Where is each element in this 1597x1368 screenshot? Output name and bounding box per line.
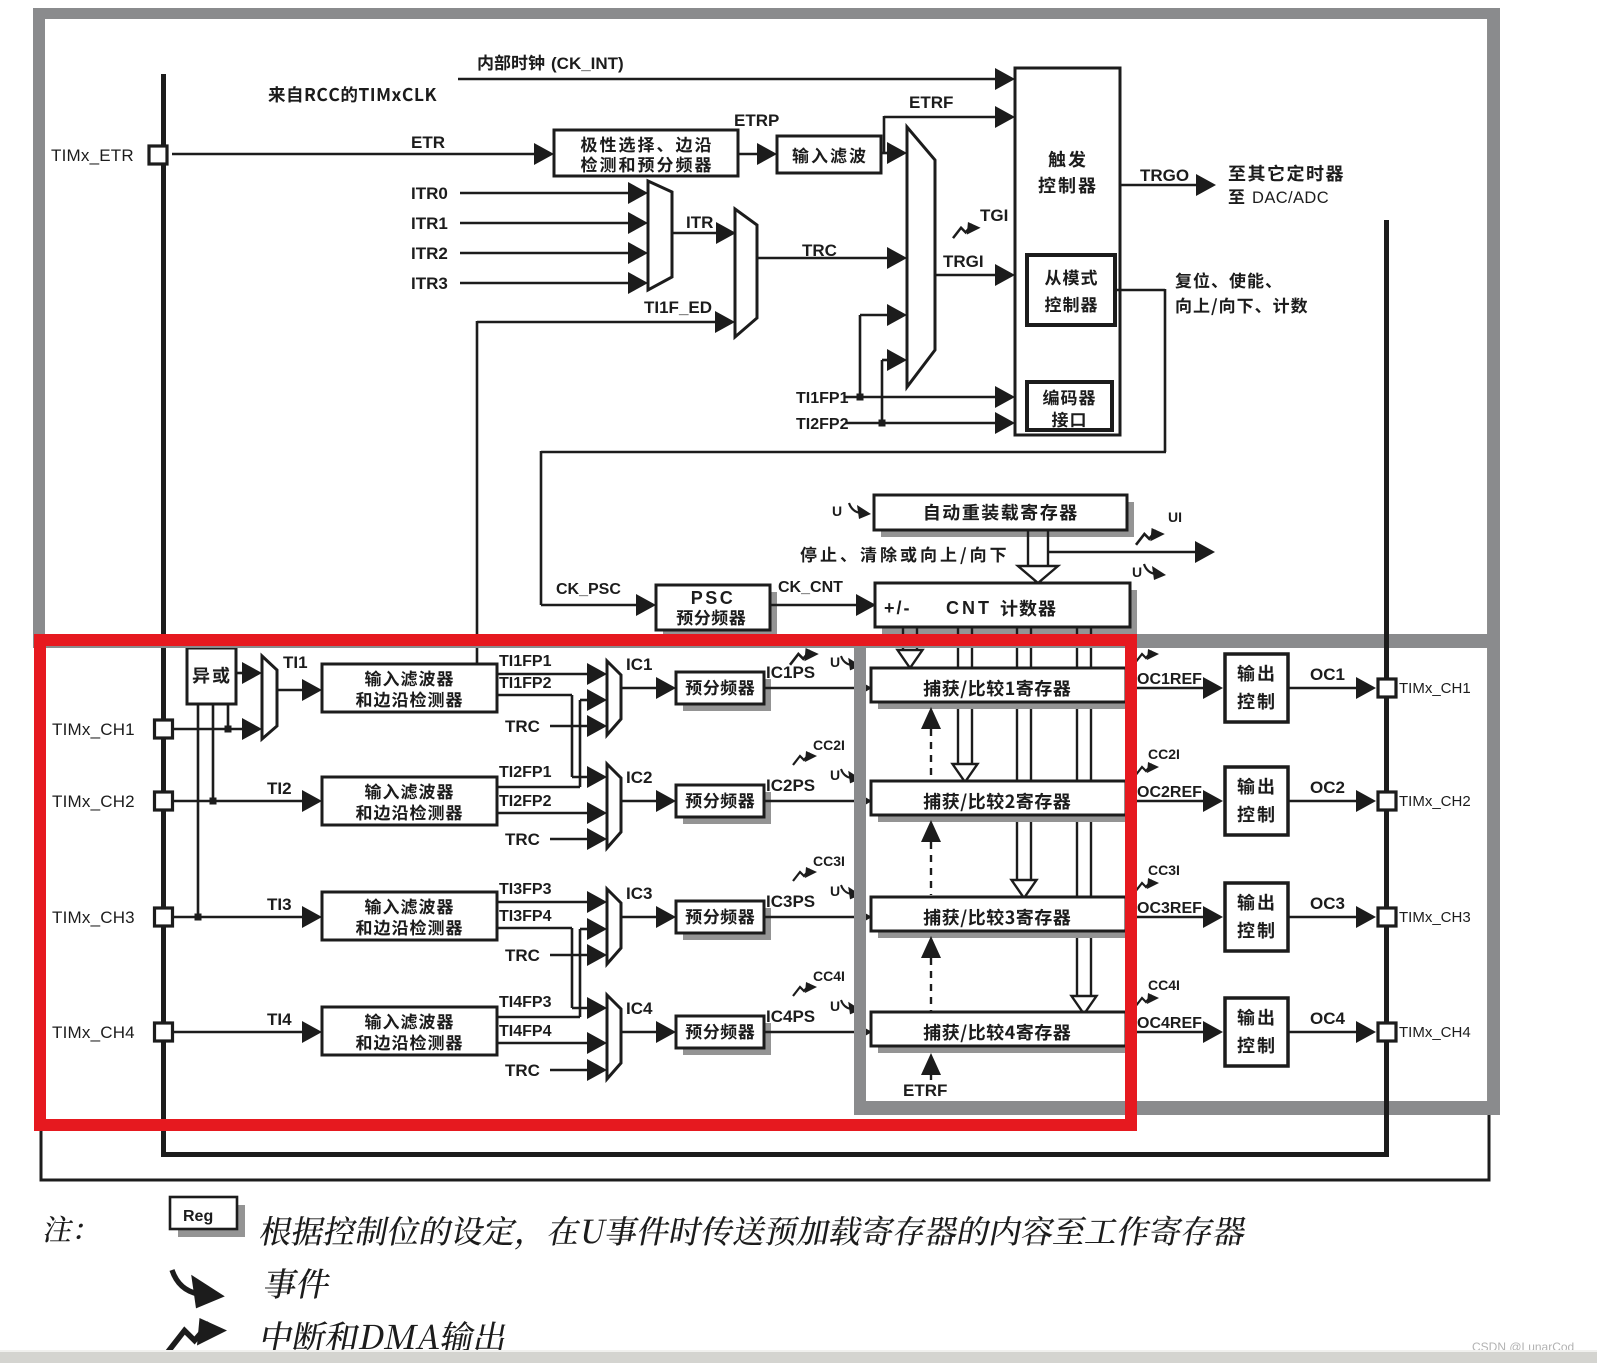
svg-text:ITR1: ITR1 [411, 214, 448, 233]
thick inner frame bottom line [161, 1152, 1389, 1157]
junction XOR-CH3 [195, 914, 202, 921]
block prescaler channel 4 预分频器 [683, 1023, 771, 1055]
svg-text:TIMx_CH2: TIMx_CH2 [1399, 793, 1471, 810]
svg-text:CC3I: CC3I [1148, 862, 1180, 878]
svg-text:U: U [830, 998, 840, 1014]
wire TI3FP4 down to IC4 mux [497, 927, 572, 930]
wire TI1FP2 down to IC2 mux [497, 694, 572, 697]
bottom window strip [0, 1350, 1597, 1352]
svg-text:ETRF: ETRF [909, 93, 953, 112]
svg-text:ITR2: ITR2 [411, 244, 448, 263]
svg-text:TIMx_CH1: TIMx_CH1 [52, 720, 135, 739]
mux IC3 input selector [607, 889, 621, 964]
svg-text:CNT: CNT [946, 598, 992, 618]
svg-text:CK_CNT: CK_CNT [778, 579, 843, 596]
wire TRGI [935, 274, 1000, 277]
wire TIMx_CH1 to mux [172, 728, 248, 731]
label 至其它定时器 / 至 DAC/ADC [1229, 165, 1343, 182]
thick inner frame right vertical line [1384, 220, 1389, 1157]
red highlight rectangle bottom bar [34, 1119, 1137, 1131]
svg-text:IC4PS: IC4PS [766, 1007, 815, 1026]
svg-text:U: U [830, 654, 840, 670]
svg-text:OC4: OC4 [1310, 1009, 1346, 1028]
legend label 事件 [263, 1268, 333, 1298]
block capture/compare register 4 捕获/比较4寄存器 [878, 1019, 1133, 1053]
block input filter & edge detector channel 4 输入滤波器和边沿检测器 [322, 1007, 497, 1055]
svg-text:CC4I: CC4I [1148, 977, 1180, 993]
wire TI1F_ED [477, 321, 718, 324]
label 复位、使能、向上/向下、计数 [1175, 272, 1271, 288]
svg-text:TI1FP1: TI1FP1 [499, 653, 552, 670]
block input filter & edge detector channel 1 输入滤波器和边沿检测器 [322, 664, 497, 712]
wire XOR leg to CH1 [227, 704, 230, 729]
svg-text:CC3I: CC3I [813, 853, 845, 869]
svg-text:TI1FP1: TI1FP1 [796, 390, 849, 407]
wire U event output right [1048, 551, 1201, 554]
svg-text:TRGO: TRGO [1140, 166, 1189, 185]
wire IC1 [621, 687, 658, 690]
block slave mode controller 从模式控制器 [1027, 255, 1115, 325]
block prescaler channel 2 预分频器 [683, 792, 771, 824]
wire ETRP [738, 153, 760, 156]
mux ITR selector [648, 181, 672, 290]
svg-text:ETRF: ETRF [903, 1081, 947, 1100]
wire slave mode control to prescaler (CK_PSC path) [1115, 289, 1165, 292]
block prescaler channel 3 预分频器 [683, 908, 771, 940]
svg-text:UI: UI [1168, 509, 1182, 525]
wire TRC row 4 [550, 1069, 590, 1072]
legend note text 根据控制位的设定... [258, 1216, 1248, 1250]
mux trigger input selector [907, 127, 935, 387]
wire OC3REF [1126, 916, 1204, 919]
wire TRGO [1120, 184, 1198, 187]
svg-text:PSC: PSC [691, 588, 736, 608]
wire OC4REF [1126, 1031, 1204, 1034]
block input filter & edge detector channel 2 输入滤波器和边沿检测器 [322, 777, 497, 825]
wire IC4 [621, 1031, 658, 1034]
mux IC2 input selector [607, 764, 621, 848]
interrupt zigzag CC3I left [793, 867, 817, 881]
hollow arrow CNT to capture/compare 2 [957, 627, 959, 766]
pad TIMx_CH1 [155, 720, 173, 738]
block capture/compare register 3 捕获/比较3寄存器 [878, 904, 1133, 938]
wire XOR leg to CH2 [212, 704, 215, 801]
svg-text:IC1: IC1 [626, 655, 652, 674]
svg-text:U: U [832, 503, 842, 519]
legend label 注： [43, 1216, 84, 1243]
wire TRC row 1 [550, 725, 590, 728]
legend event arrow [172, 1270, 225, 1308]
wire ITR2 [460, 252, 631, 255]
svg-text:U: U [830, 767, 840, 783]
gray frame left bar [33, 8, 45, 648]
wire IC1PS [764, 687, 860, 690]
wire XOR output to TI1 mux [236, 672, 248, 675]
gray frame right bar [1488, 8, 1500, 1115]
dashed capture arrow CC2 to CC1 [921, 707, 941, 729]
interrupt zigzag CC3I right [1135, 878, 1159, 892]
wire ETRF into trigger mux [881, 152, 890, 155]
junction TI2FP2 [879, 420, 886, 427]
svg-text:TI1FP2: TI1FP2 [499, 675, 552, 692]
wire IC3 [621, 916, 658, 919]
svg-text:ETRP: ETRP [734, 111, 779, 130]
block XOR 异或 [187, 648, 236, 704]
wire XOR leg to CH3 [197, 704, 200, 917]
block counter CNT 计数器 [882, 590, 1137, 634]
mux IC1 input selector [607, 661, 621, 735]
wire TRC [757, 257, 890, 260]
pad TIMx_CH4 [155, 1023, 173, 1041]
block capture/compare register 1 捕获/比较1寄存器 [878, 675, 1133, 709]
wire IC2 [621, 800, 658, 803]
interrupt zigzag CC4I right [1135, 993, 1159, 1007]
svg-text:TI1: TI1 [283, 653, 308, 672]
wire TI3FP3 [497, 901, 590, 904]
gray frame middle horizontal bar [33, 634, 1500, 648]
svg-text:CC2I: CC2I [1148, 746, 1180, 762]
svg-text:TI3FP3: TI3FP3 [499, 881, 552, 898]
wire OC4 [1288, 1031, 1358, 1034]
wire TI4FP4 [497, 1042, 590, 1045]
legend interrupt/DMA zigzag arrow [167, 1318, 227, 1353]
wire TRC row 2 [550, 838, 590, 841]
wire TI1 [277, 689, 304, 692]
wire TI1FP1 [497, 673, 590, 676]
wire TRC row 3 [550, 954, 590, 957]
interrupt zigzag CC4I left [793, 982, 817, 996]
block trigger controller 触发控制器 [1015, 68, 1120, 435]
svg-text:TRC: TRC [505, 717, 540, 736]
block capture/compare register 2 捕获/比较2寄存器 [878, 788, 1133, 822]
svg-text:OC1REF: OC1REF [1137, 671, 1202, 688]
wire IC4PS [764, 1031, 860, 1034]
junction XOR-CH2 [210, 798, 217, 805]
svg-text:TI2FP2: TI2FP2 [499, 793, 552, 810]
svg-text:TRC: TRC [505, 1061, 540, 1080]
wire IC2PS [764, 800, 860, 803]
dashed capture arrow CC4 to CC3 [921, 936, 941, 958]
wire OC1 [1288, 687, 1358, 690]
svg-text:TI4FP3: TI4FP3 [499, 994, 552, 1011]
wire ETRF to trigger controller [884, 116, 1003, 119]
hollow arrow CNT to capture/compare 1 [902, 627, 904, 652]
svg-text:TI4: TI4 [267, 1010, 292, 1029]
red highlight rectangle right bar [1125, 634, 1137, 1131]
block output control 1 输出控制 [1225, 654, 1288, 722]
wire TI2FP2 [497, 812, 590, 815]
svg-text:TI2: TI2 [267, 779, 292, 798]
svg-text:OC2REF: OC2REF [1137, 784, 1202, 801]
wire TI2FP2 branch to trigger mux [881, 360, 884, 423]
svg-text:CC2I: CC2I [813, 737, 845, 753]
pad TIMx_CH3 [155, 908, 173, 926]
svg-text:IC2PS: IC2PS [766, 776, 815, 795]
block output control 3 输出控制 [1225, 883, 1288, 951]
wire TI2FP1 up to IC1 mux [497, 786, 580, 789]
gray frame top bar [33, 8, 1500, 19]
gray inner box bottom bar [854, 1101, 1500, 1115]
svg-text:OC3: OC3 [1310, 894, 1345, 913]
svg-text:IC2: IC2 [626, 768, 652, 787]
svg-text:TI4FP4: TI4FP4 [499, 1023, 552, 1040]
pad TIMx_ETR [149, 146, 167, 164]
junction XOR-CH1 [225, 726, 232, 733]
pad TIMx_CH2 [155, 792, 173, 810]
block input filter & edge detector channel 3 输入滤波器和边沿检测器 [322, 892, 497, 940]
svg-text:U: U [1132, 564, 1142, 580]
svg-text:TIMx_CH4: TIMx_CH4 [52, 1023, 135, 1042]
wire ETRF into CC4 [921, 1053, 941, 1075]
wire IC3PS [764, 916, 860, 919]
wire OC2REF [1126, 800, 1204, 803]
block prescaler channel 1 预分频器 [683, 679, 771, 711]
svg-text:TGI: TGI [980, 206, 1008, 225]
diagram outer thin border rectangle [41, 14, 1489, 1180]
interrupt zigzag UI [1136, 528, 1165, 545]
wire TI2 [172, 800, 304, 803]
svg-text:TI1F_ED: TI1F_ED [644, 298, 712, 317]
wire TI4 [172, 1031, 304, 1034]
svg-text:ITR: ITR [686, 213, 713, 232]
mux TRC selector [735, 209, 757, 337]
red highlight rectangle left bar [34, 634, 46, 1131]
svg-text:IC1PS: IC1PS [766, 663, 815, 682]
wire ITR0 [460, 192, 631, 195]
hollow arrow CNT to capture/compare 4 [1076, 627, 1078, 998]
legend label 中断和DMA输出 [261, 1321, 508, 1352]
svg-text:ITR3: ITR3 [411, 274, 448, 293]
pad TIMx_CH1 right [1378, 679, 1396, 697]
svg-text:TIMx_CH2: TIMx_CH2 [52, 792, 135, 811]
wire TI4FP3 up to IC3 mux [497, 1016, 580, 1019]
pad TIMx_CH4 right [1378, 1023, 1396, 1041]
svg-text:TRC: TRC [505, 830, 540, 849]
block encoder interface 编码器接口 [1027, 382, 1112, 430]
svg-text:U: U [830, 883, 840, 899]
wire ITR3 [460, 282, 631, 285]
wire CK_INT into trigger controller [458, 78, 1003, 81]
svg-text:TI3: TI3 [267, 895, 292, 914]
wire TI2FP2 to encoder interface [845, 422, 1000, 425]
svg-text:TI2FP1: TI2FP1 [499, 764, 552, 781]
wire OC2 [1288, 800, 1358, 803]
block input filter 输入滤波 [777, 136, 881, 173]
svg-text:TIMx_CH4: TIMx_CH4 [1399, 1024, 1471, 1041]
wire ETR [172, 153, 536, 156]
svg-text:CK_PSC: CK_PSC [556, 581, 621, 598]
hollow arrow CNT to capture/compare 3 [1016, 627, 1018, 882]
interrupt zigzag CC1I left [790, 648, 819, 665]
svg-text:OC3REF: OC3REF [1137, 900, 1202, 917]
label 来自RCC的TIMxCLK [268, 86, 436, 102]
wire OC3 [1288, 916, 1358, 919]
interrupt zigzag TGI [953, 222, 981, 238]
svg-text:ETR: ETR [411, 133, 445, 152]
svg-text:DAC/ADC: DAC/ADC [1252, 189, 1329, 207]
wire TI3 [172, 916, 304, 919]
svg-text:OC1: OC1 [1310, 665, 1345, 684]
svg-text:TRGI: TRGI [943, 252, 984, 271]
svg-text:TIMx_CH3: TIMx_CH3 [1399, 909, 1471, 926]
legend Reg box [178, 1205, 245, 1237]
interrupt zigzag CC2I left [793, 751, 817, 765]
svg-text:CC4I: CC4I [813, 968, 845, 984]
pad TIMx_CH2 right [1378, 792, 1396, 810]
block output control 4 输出控制 [1225, 998, 1288, 1066]
thick inner frame left vertical line [161, 74, 166, 1157]
block output control 2 输出控制 [1225, 767, 1288, 835]
svg-text:OC2: OC2 [1310, 778, 1345, 797]
wire ITR to TRC mux [672, 232, 719, 235]
mux TI1 xor selector [262, 656, 277, 739]
mux IC4 input selector [607, 995, 621, 1079]
label 停止、清除或向上/向下 [800, 546, 1005, 564]
svg-text:TIMx_ETR: TIMx_ETR [51, 146, 134, 165]
gray inner box left bar [854, 634, 866, 1115]
wire OC1REF [1126, 687, 1204, 690]
svg-text:TRC: TRC [505, 946, 540, 965]
svg-text:+/-: +/- [884, 598, 912, 618]
block prescaler PSC 预分频器 [663, 592, 777, 637]
dashed capture arrow CC3 to CC2 [921, 820, 941, 842]
svg-text:IC3PS: IC3PS [766, 892, 815, 911]
svg-text:IC4: IC4 [626, 999, 653, 1018]
label 内部时钟 (CK_INT) [479, 54, 545, 70]
hollow arrow ARR to CNT [1027, 530, 1029, 568]
svg-text:(CK_INT): (CK_INT) [551, 54, 624, 73]
svg-text:TI3FP4: TI3FP4 [499, 908, 552, 925]
wire ITR1 [460, 222, 631, 225]
interrupt zigzag CC2I right [1135, 762, 1159, 776]
svg-text:TI2FP2: TI2FP2 [796, 416, 849, 433]
block polarity/edge-detect/prescaler 极性选择、边沿检测和预分频器 [554, 130, 738, 176]
svg-text:TIMx_CH1: TIMx_CH1 [1399, 680, 1471, 697]
svg-text:IC3: IC3 [626, 884, 652, 903]
interrupt zigzag CC1I right [1135, 649, 1159, 663]
pad TIMx_CH3 right [1378, 908, 1396, 926]
svg-text:Reg: Reg [183, 1208, 213, 1225]
wire CK_CNT [770, 604, 858, 607]
svg-text:TIMx_CH3: TIMx_CH3 [52, 908, 135, 927]
svg-text:OC4REF: OC4REF [1137, 1015, 1202, 1032]
junction TI1FP1 [857, 394, 864, 401]
wire TI1FP1 branch to trigger mux [859, 315, 862, 397]
svg-text:ITR0: ITR0 [411, 184, 448, 203]
wire TI1FP1 to encoder interface [845, 396, 1000, 399]
block auto-reload register 自动重装载寄存器 [881, 502, 1134, 537]
red highlight rectangle top bar [34, 634, 1137, 646]
